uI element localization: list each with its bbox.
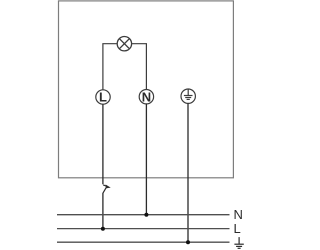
switch S1 (make contact with arrow)	[103, 185, 107, 193]
svg-text:L: L	[99, 90, 107, 105]
bus line PE	[57, 241, 230, 243]
junction dot PE wire / PE bus	[186, 240, 190, 244]
bus line N	[57, 214, 230, 216]
junction dot L wire / L bus	[101, 227, 105, 231]
svg-text:N: N	[234, 207, 243, 222]
wire from switch down to L bus	[102, 193, 104, 229]
wire from terminal N down to N bus	[145, 104, 147, 215]
svg-text:N: N	[142, 89, 151, 104]
wire lamp left to terminal L	[103, 44, 117, 90]
bus line L	[57, 228, 230, 230]
svg-text:L: L	[234, 221, 241, 236]
lamp E1 (circle with X)	[117, 37, 131, 51]
terminal L	[96, 90, 110, 104]
wire lamp right to terminal N	[132, 44, 147, 90]
wire from terminal L down to switch	[102, 104, 104, 184]
enclosure box (sensor housing)	[59, 1, 234, 178]
junction dot N wire / N bus	[144, 213, 148, 217]
wire from terminal PE down to PE bus	[187, 103, 189, 242]
terminal N	[139, 90, 153, 104]
terminal PE (earth in circle)	[181, 89, 195, 103]
earth symbol at PE bus end	[234, 237, 243, 248]
